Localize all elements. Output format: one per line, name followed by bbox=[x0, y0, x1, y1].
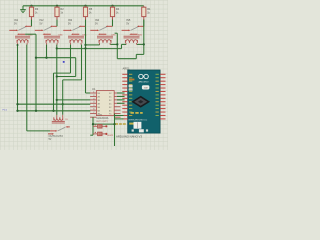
svg-text:ULN2003A: ULN2003A bbox=[96, 117, 109, 120]
relay coil RL3 bbox=[68, 34, 87, 44]
junction node L bbox=[92, 123, 94, 125]
junction node coil1 pin bbox=[17, 44, 19, 46]
relay coil RL6 output bbox=[52, 115, 69, 123]
switch contact RL1 bbox=[9, 26, 31, 36]
relay coil RL5 bbox=[124, 34, 143, 44]
svg-text:OUT1OUT2: OUT1OUT2 bbox=[49, 134, 64, 138]
relay coil RL1 bbox=[15, 34, 33, 44]
svg-text:COM: COM bbox=[97, 114, 102, 116]
wire ULN to arduino jumpers bbox=[117, 93, 125, 103]
resistor R3 bbox=[29, 6, 38, 20]
junction node A2 bbox=[16, 110, 18, 112]
arduino orange bar bbox=[129, 79, 134, 81]
grid background bbox=[0, 0, 168, 150]
arduino usb connector bbox=[132, 122, 148, 133]
wire buzzer feed bbox=[93, 123, 115, 125]
junction node B2 bbox=[35, 57, 37, 59]
wire RX jumper bbox=[115, 115, 124, 117]
arduino MCU chip bbox=[131, 96, 150, 108]
svg-text:5V: 5V bbox=[95, 23, 98, 26]
relay label IN4 bbox=[95, 18, 100, 26]
junction node rail-R2 bbox=[56, 5, 58, 7]
IC U1 right pins bbox=[114, 93, 120, 117]
wire bus H_A bbox=[57, 48, 122, 50]
wire to ULN pin 3 bbox=[57, 99, 91, 101]
relay label IN3 bbox=[68, 18, 73, 26]
IC U1 ULN2003A body bbox=[92, 87, 114, 123]
wire H_A to coil RL5 left bbox=[122, 44, 127, 48]
wire switch1 lower throw to bus B bbox=[25, 34, 75, 111]
svg-text:WWW.ARDUINO.CC: WWW.ARDUINO.CC bbox=[128, 119, 147, 122]
junction node H bbox=[84, 47, 86, 49]
junction node B bbox=[45, 57, 47, 59]
svg-text:OUT1,OUT2: OUT1,OUT2 bbox=[96, 121, 109, 123]
arduino right header pins bbox=[160, 74, 165, 119]
resistor R5 bbox=[83, 6, 92, 20]
junction node J bbox=[143, 43, 145, 45]
wire R1 drop / coil RL5 right bbox=[137, 20, 144, 45]
svg-text:ARDUINO: ARDUINO bbox=[138, 81, 148, 84]
wire ULN E drop bbox=[90, 117, 93, 135]
wire coil RL1 left to ULN pin 6 bbox=[18, 45, 91, 111]
junction node F2 bbox=[16, 103, 18, 105]
junction node I bbox=[116, 43, 118, 45]
svg-text:U1: U1 bbox=[92, 87, 96, 91]
junction node rail-R3 bbox=[30, 5, 32, 7]
svg-text:P1.0: P1.0 bbox=[3, 110, 8, 112]
junction node C bbox=[56, 75, 58, 77]
arduino left pin labels bbox=[129, 74, 132, 116]
svg-text:ARDUINO NANO V3: ARDUINO NANO V3 bbox=[116, 135, 142, 139]
wire resistor R2 to switch pole bbox=[56, 20, 58, 27]
svg-text:5V: 5V bbox=[49, 139, 52, 141]
wire resistor R3 to switch pole bbox=[31, 20, 33, 27]
arduino crystal bbox=[142, 85, 150, 89]
wire resistor R4 to switch pole bbox=[112, 20, 114, 27]
switch contact RL6 bbox=[48, 126, 70, 135]
ground bbox=[20, 6, 26, 13]
wire coil RL4 left tie bbox=[86, 43, 100, 46]
buzzer BUZ1 bbox=[93, 124, 107, 128]
wire R5 drop to ULN pin 1 bbox=[86, 26, 91, 93]
junction node K bbox=[113, 123, 115, 125]
IC U1 left pins bbox=[90, 91, 96, 117]
switch contact RL4 bbox=[90, 26, 112, 36]
svg-text:IN2: IN2 bbox=[40, 18, 45, 22]
svg-text:IN4: IN4 bbox=[95, 18, 100, 22]
svg-text:5V: 5V bbox=[40, 23, 43, 26]
label OUT1 OUT2 bbox=[49, 134, 64, 141]
arduino silk row bbox=[128, 112, 147, 122]
junction node G bbox=[84, 44, 86, 46]
arduino small parts bbox=[129, 85, 133, 91]
wire coil RL2 right main drop bbox=[56, 45, 58, 115]
wire to ULN pin 5 bbox=[18, 103, 91, 105]
junction node D bbox=[56, 99, 58, 101]
junction node B3 bbox=[35, 110, 37, 112]
switch contact RL5 bbox=[122, 26, 144, 36]
svg-text:IN3: IN3 bbox=[68, 18, 73, 22]
wire coil RL3 left bbox=[54, 45, 71, 111]
wire arduino serial drop bbox=[114, 114, 116, 146]
resistor R1 bbox=[142, 6, 151, 20]
buzzer BUZ2 bbox=[93, 132, 114, 137]
junction node E bbox=[56, 47, 58, 49]
svg-text:5V: 5V bbox=[68, 23, 71, 26]
svg-text:16M: 16M bbox=[144, 87, 148, 89]
wire coil RL1 right to output relay switch bbox=[27, 45, 50, 131]
svg-text:5V: 5V bbox=[126, 23, 129, 26]
arduino logo bbox=[138, 74, 148, 83]
wire coil RL4 right zigzag bbox=[111, 33, 144, 59]
module U3 Arduino Nano board bbox=[123, 66, 161, 133]
wire TX jumper bbox=[115, 118, 124, 120]
resistor R2 bbox=[55, 6, 64, 20]
wire resistor R5 to switch pole bbox=[85, 20, 87, 27]
wire coil RL2 left bbox=[46, 45, 48, 58]
wire top rail bbox=[23, 5, 144, 7]
relay coil RL2 bbox=[44, 34, 63, 44]
junction node rail-R4 bbox=[111, 5, 113, 7]
switch contact RL2 bbox=[35, 26, 57, 36]
wire resistor R1 to switch pole bbox=[143, 20, 145, 27]
relay coil RL4 bbox=[97, 34, 116, 44]
IC U1 pin names bbox=[97, 93, 112, 116]
wire coil RL3 right bbox=[63, 45, 82, 115]
svg-text:5V: 5V bbox=[14, 23, 17, 26]
svg-text:BUZ2: BUZ2 bbox=[108, 135, 114, 137]
switch contact RL3 bbox=[63, 26, 85, 36]
arduino left header pins bbox=[122, 74, 127, 119]
arduino right pin labels bbox=[156, 74, 159, 116]
svg-text:IN1: IN1 bbox=[14, 18, 19, 22]
junction node A bbox=[52, 110, 54, 112]
relay label IN2 bbox=[40, 18, 45, 26]
relay label IN1 bbox=[14, 18, 19, 26]
svg-text:IN5: IN5 bbox=[126, 18, 131, 22]
resistor R4 bbox=[110, 6, 119, 20]
junction node rail-R5 bbox=[84, 5, 86, 7]
arduino bottom silk bbox=[115, 123, 134, 125]
node marker blue bbox=[63, 61, 65, 63]
junction node F bbox=[62, 103, 64, 105]
relay label IN5 bbox=[126, 18, 131, 26]
